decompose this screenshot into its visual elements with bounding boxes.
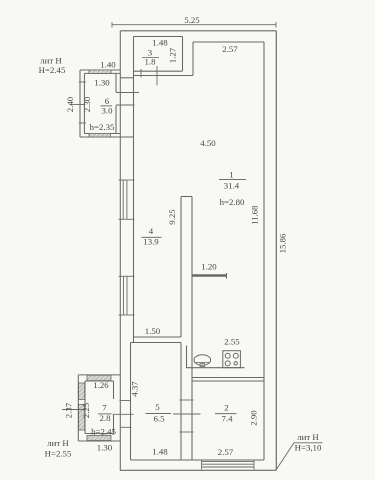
svg-text:15.86: 15.86	[278, 233, 288, 253]
svg-text:лит Н: лит Н	[47, 438, 69, 448]
wall top inner room 1	[193, 41, 264, 43]
wall left outer	[119, 31, 121, 471]
svg-text:2.37: 2.37	[64, 402, 74, 418]
wall room 2 north inner	[192, 380, 264, 382]
svg-text:2.30: 2.30	[82, 96, 92, 112]
room 3 fraction	[142, 57, 159, 59]
svg-text:5: 5	[155, 402, 160, 412]
room 2 fraction	[215, 413, 237, 415]
interior wall room4|room1 cap	[181, 196, 192, 198]
svg-text:1.40: 1.40	[100, 60, 116, 70]
ticks wall room5|room2	[173, 400, 201, 432]
wall room 5 east	[180, 343, 182, 461]
room 6 inner walls	[84, 73, 120, 133]
room 7 inner walls	[85, 381, 114, 434]
svg-text:4.37: 4.37	[130, 381, 140, 397]
room 7 window west upper	[79, 383, 85, 400]
wall room 3 east inner	[182, 37, 184, 72]
svg-text:1.30: 1.30	[94, 78, 110, 88]
svg-text:6.5: 6.5	[154, 414, 166, 424]
door room6 jamb tick	[116, 93, 139, 106]
svg-text:1: 1	[229, 170, 233, 180]
svg-text:6: 6	[105, 96, 110, 106]
wall room 3 south inner	[134, 70, 183, 72]
svg-text:1.8: 1.8	[145, 57, 157, 67]
svg-text:Н=3,10: Н=3,10	[295, 443, 322, 453]
wall step room4/room5 junction	[133, 337, 135, 343]
svg-text:4: 4	[149, 226, 154, 236]
sink	[194, 355, 211, 367]
wall room 5 west	[130, 343, 132, 461]
window A main left wall	[119, 180, 135, 219]
room 6 fraction	[101, 105, 113, 107]
svg-text:Н=2.45: Н=2.45	[39, 65, 66, 75]
svg-text:3.0: 3.0	[102, 106, 114, 116]
wall room3/room1 divider east line	[192, 42, 194, 76]
wall room 4 south upper line	[134, 336, 182, 338]
leader line lit H bottom right	[276, 443, 323, 470]
wall bottom inner	[131, 459, 265, 461]
room 7 window north	[87, 375, 111, 381]
interior wall east line (runs to room 2)	[191, 197, 193, 461]
room 7 fraction	[98, 413, 112, 415]
svg-text:2.40: 2.40	[65, 96, 75, 112]
svg-text:1.48: 1.48	[152, 38, 168, 48]
svg-text:1.50: 1.50	[145, 326, 161, 336]
svg-text:лит Н: лит Н	[40, 56, 62, 66]
svg-text:Н=2.55: Н=2.55	[45, 448, 72, 458]
svg-text:1.20: 1.20	[201, 262, 217, 272]
room 6 west window ticks	[79, 82, 86, 123]
svg-text:2.57: 2.57	[222, 44, 238, 54]
svg-text:1.26: 1.26	[93, 380, 109, 390]
wall room 4 south lower line	[131, 342, 182, 344]
wall right inner	[263, 42, 265, 460]
svg-text:1.48: 1.48	[152, 447, 168, 457]
wall right outer	[275, 31, 277, 471]
room 6 annex outer walls	[80, 70, 134, 137]
svg-text:13.9: 13.9	[143, 237, 159, 247]
svg-text:11.68: 11.68	[250, 205, 260, 225]
kitchen counter	[187, 346, 245, 368]
svg-text:2: 2	[224, 403, 228, 413]
room 4 fraction	[142, 236, 162, 238]
wall stub 1.20	[192, 273, 227, 279]
svg-text:4.50: 4.50	[200, 138, 216, 148]
fraction lines of room labels	[98, 58, 246, 414]
wall top inner room 3	[134, 36, 183, 38]
room 1 fraction	[219, 179, 246, 181]
room 7 window west lower	[79, 405, 85, 431]
room 5 fraction	[146, 412, 172, 414]
svg-text:1.30: 1.30	[97, 443, 113, 453]
room 6 window south	[89, 133, 111, 137]
svg-text:2.55: 2.55	[224, 336, 240, 346]
door room7 jamb tick	[113, 401, 134, 428]
svg-text:7.4: 7.4	[222, 413, 234, 423]
svg-text:лит Н: лит Н	[297, 432, 319, 442]
wall left inner (room 4 west)	[133, 37, 135, 338]
svg-text:5.25: 5.25	[184, 15, 200, 25]
stove	[223, 351, 241, 368]
room 7 annex outer walls	[78, 375, 120, 441]
room 7 window south	[87, 436, 111, 441]
window B main left wall	[119, 276, 135, 315]
dim dash room 7 left	[62, 409, 86, 411]
svg-text:2.90: 2.90	[249, 410, 259, 426]
svg-text:h=2.80: h=2.80	[220, 197, 245, 207]
svg-text:h=2.45: h=2.45	[91, 427, 116, 437]
wall top outer	[120, 30, 276, 32]
dimension line 5.25 top	[112, 22, 276, 28]
dim dash room 6 left	[70, 104, 85, 106]
svg-text:2.57: 2.57	[218, 447, 234, 457]
svg-text:1.27: 1.27	[168, 47, 178, 63]
door room 3 jamb ticks	[141, 66, 157, 86]
svg-text:9.25: 9.25	[167, 209, 177, 225]
room 6 window north	[89, 70, 111, 74]
svg-text:h=2.35: h=2.35	[90, 122, 115, 132]
svg-text:31.4: 31.4	[224, 181, 240, 191]
wall room 3 south outer	[120, 76, 193, 78]
svg-text:2.8: 2.8	[100, 413, 112, 423]
wall bottom outer	[120, 469, 276, 471]
svg-text:7: 7	[102, 403, 107, 413]
svg-text:2.25: 2.25	[81, 402, 91, 418]
wall room 2 north outer	[192, 377, 264, 379]
porch steps bottom	[202, 460, 255, 470]
interior wall room4|room1 west line	[180, 197, 182, 338]
